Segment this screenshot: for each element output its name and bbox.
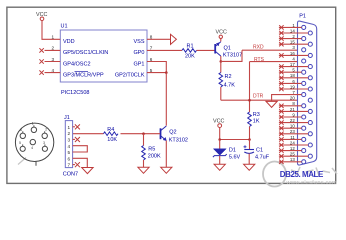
wire junction to R5 <box>143 134 145 146</box>
wire VCC to Q1 emitter <box>220 39 222 42</box>
wire node to C1 <box>249 140 251 150</box>
wire node line D1 to C1 <box>220 139 250 141</box>
svg-text:DTR: DTR <box>253 93 264 99</box>
P1 pin 19 <box>279 84 312 91</box>
svg-text:P1: P1 <box>299 14 306 20</box>
svg-text:21: 21 <box>290 107 295 112</box>
junction GP1/GP2 <box>165 71 168 74</box>
svg-text:VCC: VCC <box>216 30 227 36</box>
svg-text:16: 16 <box>290 51 295 56</box>
svg-text:U1: U1 <box>61 24 68 30</box>
svg-text:1: 1 <box>68 125 71 130</box>
svg-text:4: 4 <box>31 146 33 150</box>
P1 pin 15 <box>279 40 312 47</box>
svg-text:4.7uF: 4.7uF <box>255 155 270 161</box>
wire collector to R2 <box>220 61 222 72</box>
wire R1 to Q1 base <box>197 49 215 51</box>
junction node left <box>218 138 221 141</box>
svg-text:20: 20 <box>290 96 295 101</box>
J1 pin numbers <box>68 125 71 168</box>
P1 pin 17 <box>279 62 312 69</box>
P1 pin 4 <box>292 56 305 63</box>
ground at P1 pin7 <box>266 101 277 107</box>
DIN pin circles <box>20 127 47 151</box>
wire GP1 pin6 to junction <box>147 62 166 73</box>
net DTR wire <box>221 99 308 101</box>
wire J1 pin2 to R4 <box>73 133 104 135</box>
wire R3 to VCC node <box>249 127 251 140</box>
wire J1 pins 4-5 bracket <box>73 146 88 152</box>
svg-text:6: 6 <box>20 128 22 132</box>
P1 pin 10 <box>279 124 306 131</box>
svg-text:2: 2 <box>45 128 47 132</box>
svg-text:www.elecfans.com: www.elecfans.com <box>286 180 337 186</box>
svg-text:R1: R1 <box>187 43 194 49</box>
svg-text:CON7: CON7 <box>63 172 78 178</box>
svg-text:C1: C1 <box>256 147 263 153</box>
DIN pin ticks <box>23 125 45 146</box>
DIN key notch <box>35 161 37 166</box>
P1 pin 23 <box>279 129 312 136</box>
junction Q1 collector node <box>220 60 223 63</box>
svg-text:200K: 200K <box>148 153 161 159</box>
no-connect X pin2 <box>39 48 43 52</box>
svg-text:14: 14 <box>290 28 295 33</box>
svg-text:J1: J1 <box>64 115 70 121</box>
svg-text:KT3102: KT3102 <box>169 138 188 144</box>
wire J1 pin6 to ground <box>73 158 88 167</box>
wire GP2 pin5 stub <box>147 72 166 74</box>
no-connect X pin4 <box>39 70 43 74</box>
U1 pin stubs left <box>45 50 61 72</box>
svg-text:3: 3 <box>68 138 71 143</box>
svg-text:R2: R2 <box>225 74 232 80</box>
wire junction to Q2 collector <box>165 73 167 126</box>
J1 pin7 stub + X <box>73 164 75 166</box>
svg-text:10K: 10K <box>107 137 117 143</box>
svg-text:4: 4 <box>68 144 71 149</box>
wire GP0 pin7 to R1 <box>147 49 182 51</box>
svg-text:PIC12C508: PIC12C508 <box>61 90 89 96</box>
J1 pin3 stub + X <box>73 138 75 140</box>
P1 pin 13 <box>279 157 306 164</box>
svg-text:15: 15 <box>290 40 295 45</box>
wire VCC to pin1 <box>42 21 60 40</box>
net RXD wire <box>242 49 302 51</box>
wire RTS down to R3 <box>249 62 251 112</box>
P1 pin 7 <box>292 90 305 97</box>
wire Q1 collector down <box>220 56 222 61</box>
IC U1 PIC12C508 <box>60 24 147 97</box>
junction node right <box>248 138 251 141</box>
wire collector jog to RXD <box>221 50 242 61</box>
P1 pin 2 <box>279 34 306 41</box>
pin numbers U1 <box>51 35 152 73</box>
svg-text:DB25. MALE: DB25. MALE <box>280 170 324 179</box>
wire VCC to node <box>219 128 221 140</box>
svg-text:17: 17 <box>290 62 295 67</box>
svg-text:2: 2 <box>68 131 71 136</box>
P1 pin 25 <box>279 152 312 159</box>
connector P1 DB25 outline <box>298 14 317 165</box>
net RTS wire <box>250 61 302 63</box>
svg-text:RXD: RXD <box>253 45 264 51</box>
svg-text:GP4/OSC2: GP4/OSC2 <box>63 61 91 67</box>
svg-text:4.7K: 4.7K <box>224 82 236 88</box>
resistor R1 <box>182 43 196 59</box>
P1 pin 1 <box>279 23 306 30</box>
svg-text:18: 18 <box>290 73 295 78</box>
svg-text:5: 5 <box>19 141 21 145</box>
svg-text:3: 3 <box>43 141 45 145</box>
svg-text:D1: D1 <box>229 147 236 153</box>
svg-text:23: 23 <box>290 129 295 134</box>
connector J1 CON7 box <box>63 115 78 178</box>
svg-text:5: 5 <box>68 150 71 155</box>
capacitor C1 4.7uF <box>244 145 270 160</box>
junction R5 top <box>142 132 145 135</box>
wire P1 pin7 to ground <box>272 95 302 102</box>
svg-text:VSS: VSS <box>133 39 144 45</box>
wire R4 to Q2 base <box>121 133 161 135</box>
svg-text:RTS: RTS <box>254 57 265 63</box>
P1 pin 14 <box>279 28 312 35</box>
svg-text:GP0: GP0 <box>133 50 144 56</box>
wire Q2 emitter to ground <box>165 141 167 168</box>
off-page connector arrow <box>171 34 177 44</box>
svg-text:KT3107: KT3107 <box>223 53 242 59</box>
P1 pin 21 <box>279 107 312 114</box>
svg-text:7: 7 <box>68 163 71 168</box>
ground under J1 pin6 <box>82 168 93 174</box>
junction RTS/DTR <box>248 99 251 102</box>
transistor Q2 KT3102 NPN <box>161 126 188 144</box>
transistor Q1 KT3107 PNP <box>215 42 242 59</box>
svg-text:22: 22 <box>290 118 295 123</box>
svg-text:6: 6 <box>68 156 71 161</box>
DIN-7 connector circle <box>15 123 53 161</box>
svg-text:13: 13 <box>290 157 295 162</box>
J1 pin1 stub + X <box>73 126 75 128</box>
svg-text:11: 11 <box>290 135 295 140</box>
svg-text:VDD: VDD <box>63 39 75 45</box>
power VCC above Q1 <box>216 30 227 39</box>
wire R5 to ground <box>143 160 145 167</box>
svg-text:Q2: Q2 <box>169 129 176 135</box>
wire VSS pin8 to off-page arrow <box>147 38 171 40</box>
power VCC top-left <box>36 12 47 21</box>
resistor R5 <box>142 146 161 160</box>
resistor R4 <box>104 127 119 143</box>
svg-text:25: 25 <box>290 152 295 157</box>
diode D1 zener 5.6V <box>213 147 241 160</box>
svg-text:1: 1 <box>32 122 34 126</box>
P1 pin 8 <box>279 101 306 108</box>
svg-text:R4: R4 <box>107 127 114 133</box>
ground under R5 <box>138 167 149 173</box>
P1 pin 9 <box>279 112 306 119</box>
wire R2 to DTR <box>220 87 222 100</box>
svg-text:19: 19 <box>290 84 295 89</box>
resistor R3 <box>248 112 260 127</box>
svg-text:5.6V: 5.6V <box>229 154 241 160</box>
svg-text:12: 12 <box>290 146 295 151</box>
resistor R2 <box>219 73 235 89</box>
watermark swoosh <box>18 158 286 187</box>
svg-text:GP2/T0CLK: GP2/T0CLK <box>115 72 145 78</box>
P1 pin 20 <box>290 96 312 103</box>
P1 pin 18 <box>279 73 312 80</box>
P1 pin 6 <box>279 79 306 86</box>
svg-text:R3: R3 <box>253 112 260 118</box>
svg-text:GP3/MCLR/VPP: GP3/MCLR/VPP <box>63 72 104 78</box>
watermark text elecfans <box>291 167 337 176</box>
P1 pin 3 <box>292 45 305 52</box>
P1 pin 22 <box>279 118 312 125</box>
wire node to D1 <box>219 140 221 149</box>
P1 pin 24 <box>279 140 312 147</box>
no-connect X pin3 <box>39 59 43 63</box>
svg-text:GP1: GP1 <box>133 61 144 67</box>
DIN pin digits <box>19 122 47 151</box>
ground under D1 <box>214 164 225 170</box>
svg-text:Q1: Q1 <box>224 46 231 52</box>
P1 pin 16 <box>279 51 312 58</box>
svg-text:10: 10 <box>290 124 295 129</box>
P1 pin 5 <box>279 68 306 75</box>
ground under C1 <box>244 164 255 170</box>
wire C1 to ground <box>248 154 250 165</box>
wire D1 to ground <box>219 156 221 165</box>
P1 pin 12 <box>279 146 306 153</box>
svg-text:1K: 1K <box>253 119 260 125</box>
svg-text:24: 24 <box>290 140 295 145</box>
border frame <box>7 7 336 183</box>
ground under Q2 <box>161 167 172 173</box>
svg-text:R5: R5 <box>148 147 155 153</box>
P1 pin 11 <box>279 135 306 142</box>
svg-text:20K: 20K <box>185 54 195 60</box>
power VCC bottom node <box>213 118 224 127</box>
svg-text:GP5/OSC1/CLKIN: GP5/OSC1/CLKIN <box>63 50 108 56</box>
